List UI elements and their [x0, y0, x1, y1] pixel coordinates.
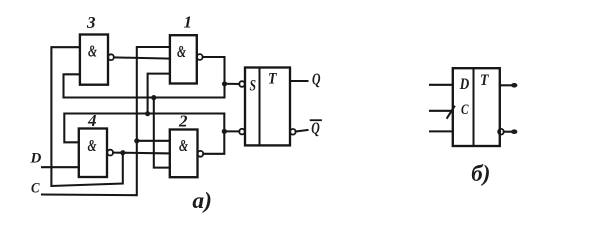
- NAND gate 1: [170, 35, 197, 83]
- inverter circle on gate 4 output: [107, 150, 113, 156]
- inverter circle Qbar output of symbol: [498, 129, 504, 135]
- wire Qbar output: [296, 130, 308, 132]
- svg-text:&: &: [88, 42, 98, 61]
- wire gate2 output to R node and bus2: [203, 114, 224, 154]
- wire C input of symbol: [430, 110, 453, 112]
- svg-text:&: &: [179, 136, 189, 155]
- svg-text:T: T: [480, 72, 490, 89]
- junction dot gate4 output node: [120, 150, 125, 155]
- bus1 wire (gate1 output feedback): [64, 84, 225, 98]
- NAND gate 2: [170, 130, 198, 178]
- wire Qbar output of symbol: [504, 131, 513, 133]
- wire bus2 riser to gate1 input3: [148, 74, 170, 114]
- RS latch T: [245, 68, 290, 146]
- inverter circle on gate 2 output: [198, 151, 204, 157]
- inverter circle latch R input: [239, 129, 245, 135]
- svg-text:Q: Q: [312, 70, 321, 89]
- svg-text:D: D: [30, 151, 42, 167]
- terminal dot Qbar output: [511, 129, 517, 134]
- inverter circle on gate 1 output: [197, 54, 203, 60]
- wire gate3 input2 riser from bus1: [64, 74, 80, 97]
- node S junction dot: [222, 81, 227, 86]
- svg-text:&: &: [88, 136, 98, 155]
- svg-text:D: D: [459, 76, 470, 93]
- wire D input of symbol: [430, 84, 453, 86]
- wire gate3 output to gate1 input2: [114, 57, 170, 58]
- wire bus1 descender to gate2 input3: [154, 98, 170, 168]
- D flip-flop symbol (right): [453, 68, 500, 146]
- inverter circle on gate 3 output: [108, 54, 114, 60]
- wire C branch to gate2 input1: [137, 140, 170, 142]
- svg-text:3: 3: [86, 13, 96, 32]
- NAND gate 4: [79, 129, 107, 178]
- wire Q output of symbol: [500, 84, 513, 86]
- junction dot C branch to gate2 input1: [134, 138, 139, 143]
- svg-text:C: C: [461, 102, 469, 118]
- label Qbar: [311, 118, 321, 137]
- wire gate4 output to gate2 input2: [113, 152, 170, 155]
- terminal dot Q output: [511, 83, 517, 88]
- svg-text:S: S: [250, 78, 257, 95]
- node R junction dot: [222, 129, 227, 134]
- dynamic input slash on C: [447, 107, 454, 118]
- wire R node to latch R input: [224, 130, 239, 132]
- wire C input line: [42, 47, 170, 195]
- bus2 wire (gate2 output feedback): [64, 114, 224, 143]
- wire S node to latch S input: [225, 83, 240, 85]
- junction dot bus1 to gate2 input3: [151, 95, 156, 100]
- wire feedback gate4 output to gate3 input1 (left tall wire): [51, 47, 122, 186]
- svg-text:&: &: [177, 42, 187, 61]
- NAND gate 3: [80, 35, 108, 85]
- wire D input to gate4: [42, 166, 79, 168]
- wire gate1 output to S node: [203, 57, 225, 84]
- svg-text:б): б): [471, 161, 490, 186]
- svg-text:1: 1: [184, 13, 193, 32]
- wire Q output: [290, 80, 308, 82]
- inverter circle latch Qbar output: [290, 129, 296, 135]
- svg-text:а): а): [192, 188, 212, 213]
- svg-text:Q: Q: [311, 118, 320, 137]
- svg-text:C: C: [31, 181, 40, 197]
- inverter circle latch S input: [239, 81, 245, 87]
- junction dot bus2 to gate1 input3: [145, 111, 150, 116]
- svg-text:T: T: [268, 71, 278, 88]
- wire lower input of symbol: [430, 130, 453, 132]
